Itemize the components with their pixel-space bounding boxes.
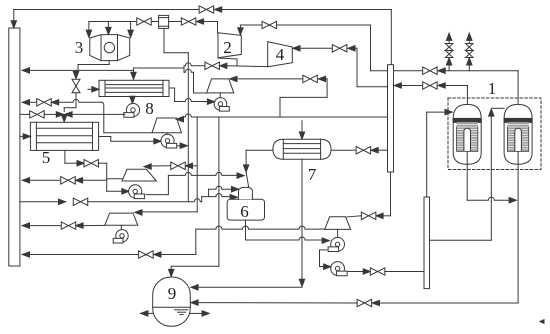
arrow on feed line <box>363 269 370 274</box>
arrow into Tc <box>135 210 142 215</box>
wire Pb discharge to tank 6 <box>146 194 169 196</box>
tank U6 <box>227 199 264 220</box>
turbine Ta <box>152 118 182 133</box>
wire turbine exhaust header to bar <box>22 68 29 73</box>
arrow into Pe2 <box>324 264 331 269</box>
wire HX8 outlet to pump Pd <box>169 87 175 89</box>
wire Y3 line with drop into T2 <box>239 25 241 30</box>
turbine Te <box>325 217 351 230</box>
wire drum 9 left outlet <box>146 312 153 314</box>
arrow y225 <box>76 223 83 228</box>
svg-text:7: 7 <box>308 165 317 184</box>
valve on Te inlet <box>361 212 376 219</box>
pump Pe2 <box>331 262 347 276</box>
wire Y3 drop <box>370 25 372 71</box>
wire Y1 drop to column <box>390 10 392 65</box>
wire HX5 bottom outlet <box>64 150 66 163</box>
arrow on Y2 <box>196 19 203 24</box>
wire tank outlet to pump Pe1 <box>246 237 323 240</box>
wire Y2 drop to turbine 2 inlet <box>217 22 219 34</box>
wire line A to bar <box>22 100 29 105</box>
arrow on HX5 drain <box>77 161 84 166</box>
arrow down to valve <box>73 72 78 79</box>
wire tank 6 bottom outlet <box>245 220 247 240</box>
arrow up on riser <box>489 109 494 116</box>
valve y180 <box>61 177 76 184</box>
wire SG left outlet <box>466 164 468 201</box>
heat exchanger HX8 <box>99 80 169 96</box>
arrow into tank 6 side <box>230 195 237 200</box>
wire Pe1 to Pe2 <box>320 249 327 251</box>
heat exchanger HX7 <box>273 139 331 159</box>
wire Pa outlet to bus <box>178 145 181 147</box>
arrow on return line <box>372 300 379 305</box>
wire bus197 to Tc inlet <box>140 211 197 213</box>
wire HX7 outlet to tank 6 <box>246 149 275 151</box>
valve on Y3 <box>262 21 277 28</box>
arrow into column right <box>394 83 401 88</box>
wire bar to HX5 left inlet <box>20 135 25 137</box>
wire Pe2 discharge to feed column <box>348 271 364 273</box>
arrow on line B <box>438 83 445 88</box>
arrow into bar top <box>11 21 16 28</box>
valve on line A <box>37 99 52 106</box>
arrow into Pe1 <box>322 238 329 243</box>
arrow y254 <box>154 252 161 257</box>
arrow into HX7 top <box>299 132 304 139</box>
wire bus x219 <box>218 117 220 266</box>
wire drum 9 right outlet <box>190 312 203 314</box>
svg-text:9: 9 <box>168 284 177 303</box>
wire Y2 manifold line <box>89 21 137 23</box>
wire jog to tank 6 dome-left <box>208 189 210 196</box>
wire Tb drain to drop <box>107 178 122 180</box>
wire branch with vertical valve <box>75 70 77 73</box>
valve on feed line <box>370 268 385 275</box>
drum U9 <box>153 277 191 326</box>
turbine Tb <box>122 169 156 181</box>
arrow on Td inlet <box>318 76 325 81</box>
arrow into Tb <box>144 164 151 169</box>
wire riser bottom to Ta <box>104 132 152 134</box>
steam generator vessel at x=504.1 <box>504 104 532 164</box>
flow element FE on Y2 <box>159 15 169 28</box>
steam generator vessel at x=453.2 <box>453 104 481 164</box>
wire drain line to bar y180 <box>22 178 29 183</box>
arrow into comp 3 left <box>86 30 91 37</box>
column (moisture separator) <box>388 65 394 172</box>
relief valve stack x=469.3 <box>468 65 470 71</box>
arrow into comp 3 middle <box>106 27 111 34</box>
tiny mark <box>540 320 544 324</box>
pump Pa <box>161 134 177 148</box>
wire HX5 right outlet to pump Pa <box>99 136 111 138</box>
vertical valve <box>72 79 80 93</box>
wire bus from FE down <box>163 28 165 52</box>
svg-text:1: 1 <box>488 79 497 98</box>
wire SG right outlet down <box>517 164 519 304</box>
arrow into T2 <box>238 28 243 35</box>
wire T4 inlet from column <box>293 46 300 51</box>
turbine T2 <box>218 33 241 58</box>
wire line B to bar <box>20 113 30 115</box>
svg-text:2: 2 <box>223 38 232 57</box>
wire condensate line y229 <box>196 226 325 229</box>
wire HX7 bottom drain bus <box>301 159 303 281</box>
valve on T4 inlet <box>332 45 347 52</box>
svg-text:4: 4 <box>276 45 285 64</box>
arrow into drum 9 upper <box>191 285 198 290</box>
arrow into SG left <box>445 109 452 114</box>
wire extraction line Ta to column <box>176 117 183 122</box>
dashed boundary box unit 1 <box>448 98 541 170</box>
wire column2 to left vessel <box>426 112 428 197</box>
arrow into tank 6 dome <box>232 187 239 192</box>
wire exhaust line bridging bus <box>184 63 205 66</box>
valve on line B <box>423 82 438 89</box>
wire comp 3 outlet <box>108 61 110 65</box>
wire bus219 to drum 9 inlet <box>171 265 219 267</box>
wire Tb inlet line <box>192 165 197 167</box>
pump P8 <box>124 103 140 117</box>
wire drop into HX5 <box>63 114 65 116</box>
arrow on T4 inlet <box>348 46 355 51</box>
arrow on Y1 <box>215 7 222 12</box>
arrow into pump Pd <box>207 99 214 104</box>
wire bus x188 <box>187 53 189 202</box>
wire column bottom to turbine Te <box>390 172 392 216</box>
wire return line to drum 9 lower <box>378 302 518 304</box>
arrow on HX7 inlet <box>371 148 378 153</box>
wire branch into HX8 <box>133 68 135 74</box>
arrow into drum 9 top <box>169 269 174 276</box>
wire bus x197 <box>196 117 198 212</box>
wire drop to pump turbine Td <box>183 68 185 72</box>
wire manifold drops into compressor 3 <box>88 22 90 33</box>
wire HX8 drain to pump P8 <box>131 97 133 99</box>
feed column 2 <box>424 197 430 289</box>
wire line y254 to bar <box>22 252 29 257</box>
pump Pb <box>129 185 145 199</box>
wire turbine 2 exhaust <box>218 58 237 59</box>
wire SG internals stubs <box>466 151 468 163</box>
valve on Y2 (left) <box>137 18 152 25</box>
valve on line A <box>423 67 438 74</box>
turbine T4 <box>268 42 293 67</box>
relief valve stack x=449.1 <box>448 65 450 71</box>
wire Ta drain stub <box>166 133 168 135</box>
valve on Td inlet <box>303 75 318 82</box>
valve on top line Y1 <box>199 6 214 13</box>
header bar (left manifold) <box>9 28 20 266</box>
wire stub arrow into HX8 left <box>88 88 94 90</box>
arrow joining SG right outlet <box>509 198 516 203</box>
arrow on Te inlet <box>376 213 383 218</box>
wire stub into HX7 inlet <box>301 121 303 134</box>
compressor U3 <box>90 35 130 61</box>
turbine Tc <box>105 213 138 225</box>
arrow at drain corner <box>299 279 304 286</box>
arrow on line A <box>438 68 445 73</box>
wire Y1 top line from bar to column 1 <box>14 9 392 11</box>
wire HX7 inlet from column <box>331 149 356 151</box>
wire Td drain stub <box>219 93 221 98</box>
valve on return line <box>357 299 372 306</box>
arrow into drum 9 lower <box>191 300 198 305</box>
arrow on line B west <box>65 112 72 117</box>
water symbol <box>175 309 189 311</box>
arrow y202 <box>59 199 66 204</box>
arrow on line B east <box>56 112 63 117</box>
pump Pc <box>113 230 128 243</box>
turbine Td <box>207 79 234 93</box>
arrow into comp 3 right <box>128 30 133 37</box>
arrow into HX8 top <box>131 72 136 79</box>
wire Tc drain stub <box>120 225 122 229</box>
pump Pd <box>214 98 229 112</box>
svg-text:8: 8 <box>145 99 154 118</box>
valve on HX5 drain <box>84 160 99 167</box>
wire drop to pump Pb <box>106 163 108 191</box>
arrow into tank 6 dome line <box>237 173 244 178</box>
valve on Tb inlet <box>171 162 186 169</box>
valve y225 <box>61 222 76 229</box>
svg-text:6: 6 <box>240 202 249 221</box>
valve on Y2 (right) <box>181 18 196 25</box>
valve on exhaust line <box>205 62 220 69</box>
wire line Tc to bar y225 <box>22 223 29 228</box>
wire to turbine 4 outlet <box>227 65 268 68</box>
valve on HX7 inlet <box>356 147 371 154</box>
arrow into pump Pb <box>122 189 129 194</box>
svg-text:3: 3 <box>75 38 84 57</box>
wire Te drain stub <box>337 229 339 237</box>
arrow to tank dome <box>243 165 248 172</box>
wire steam line A from SG right <box>394 70 423 72</box>
pump Pe1 <box>328 237 344 251</box>
wire Td inlet line <box>230 76 237 81</box>
valve y202 <box>73 198 88 205</box>
wire column2 to right vessel riser <box>430 239 492 241</box>
water level in drum 9 <box>153 306 191 308</box>
heat exchanger HX5 <box>30 122 98 150</box>
arrow on line A <box>52 100 59 105</box>
wire line from bar to tank 6 <box>20 201 59 203</box>
arrow into pump Pa <box>154 139 161 144</box>
svg-text:5: 5 <box>42 148 51 167</box>
valve y254 <box>139 251 154 258</box>
valve on line B <box>30 111 45 118</box>
arrow y180 <box>75 178 82 183</box>
arrow on exhaust line <box>220 63 227 68</box>
